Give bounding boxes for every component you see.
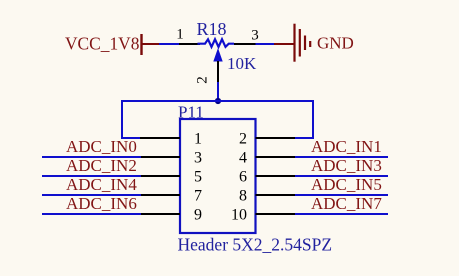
pin number 2 (P11) (239, 131, 247, 148)
wire ADC_IN6 (42, 213, 141, 215)
resistor R18 value 10K (227, 54, 257, 73)
svg-text:9: 9 (194, 207, 202, 224)
ground GND bar 3 (304, 36, 306, 51)
pin number 8 (P11) (239, 188, 247, 205)
svg-text:VCC_1V8: VCC_1V8 (65, 33, 140, 53)
ground GND lead (274, 43, 295, 45)
svg-text:ADC_IN0: ADC_IN0 (66, 137, 137, 156)
svg-text:ADC_IN1: ADC_IN1 (311, 137, 382, 156)
wire right to P11 pin 2 (294, 137, 314, 139)
pin 2 of P11 (256, 137, 296, 139)
potentiometer wiper arrow (213, 48, 222, 62)
pin 8 of P11 (256, 194, 296, 196)
net label ADC_IN6 (66, 194, 137, 213)
svg-text:8: 8 (239, 188, 247, 205)
net label ADC_IN2 (66, 156, 137, 175)
wire horizontal bus top (122, 100, 313, 102)
wire ADC_IN0 (42, 156, 141, 158)
net label ADC_IN4 (66, 175, 137, 194)
pin 5 of P11 (140, 175, 180, 177)
pin number 1 (R18) (176, 27, 184, 43)
pin number 7 (P11) (194, 188, 202, 205)
wire ADC_IN3 (295, 175, 388, 177)
svg-text:2: 2 (239, 131, 247, 148)
ground GND bar 4 (309, 41, 311, 47)
junction dot (215, 98, 221, 104)
net label ADC_IN3 (311, 156, 382, 175)
pin 3 of P11 (140, 156, 180, 158)
header P11 designator (178, 103, 204, 122)
header P11 comment (178, 235, 333, 255)
svg-text:ADC_IN4: ADC_IN4 (66, 175, 137, 194)
pin 3 of R18 (234, 43, 256, 45)
svg-text:3: 3 (251, 28, 259, 44)
wire R18 wiper down to junction (217, 82, 219, 101)
net label ADC_IN0 (66, 137, 137, 156)
svg-text:10K: 10K (227, 54, 257, 73)
pin number 3 (P11) (194, 150, 202, 167)
pin number 3 (R18) (251, 28, 259, 44)
wire R18 pin 3 to GND (256, 43, 276, 45)
power port VCC_1V8 lead (142, 43, 161, 45)
wire right vertical drop (312, 100, 314, 138)
resistor R18 designator (197, 19, 227, 39)
svg-text:4: 4 (239, 150, 247, 167)
power port VCC_1V8 bar (140, 34, 142, 55)
pin number 5 (P11) (194, 169, 202, 186)
pin number 10 (P11) (231, 207, 247, 224)
pin 1 of P11 (140, 137, 180, 139)
pin number 1 (P11) (194, 131, 202, 148)
svg-text:6: 6 (239, 169, 247, 186)
svg-text:2: 2 (195, 76, 211, 84)
wire ADC_IN1 (295, 156, 388, 158)
svg-text:ADC_IN2: ADC_IN2 (66, 156, 137, 175)
svg-text:ADC_IN5: ADC_IN5 (311, 175, 382, 194)
ground GND text (317, 34, 354, 53)
wire VCC to R18 pin 1 (159, 43, 180, 45)
ground GND bar 2 (299, 29, 301, 57)
pin 1 of R18 (179, 43, 200, 45)
resistor R18 body (potentiometer zigzag) (198, 39, 235, 47)
pin number 9 (P11) (194, 207, 202, 224)
wire ADC_IN7 (295, 213, 388, 215)
net label ADC_IN1 (311, 137, 382, 156)
pin 9 of P11 (140, 213, 180, 215)
wire left to P11 pin 1 (121, 137, 142, 139)
pin 4 of P11 (256, 156, 296, 158)
svg-text:GND: GND (317, 34, 354, 53)
pin number 2 (R18, rotated) (195, 76, 211, 84)
pin 6 of P11 (256, 175, 296, 177)
svg-text:ADC_IN7: ADC_IN7 (311, 194, 382, 213)
svg-text:7: 7 (194, 188, 202, 205)
pin 2 of R18 (wiper) (217, 61, 219, 83)
power port VCC_1V8 text (65, 33, 140, 53)
net label ADC_IN7 (311, 194, 382, 213)
pin number 4 (P11) (239, 150, 247, 167)
wire ADC_IN4 (42, 194, 141, 196)
svg-text:R18: R18 (197, 19, 227, 39)
pin 7 of P11 (140, 194, 180, 196)
svg-text:Header 5X2_2.54SPZ: Header 5X2_2.54SPZ (178, 235, 333, 255)
pin 10 of P11 (256, 213, 296, 215)
svg-text:ADC_IN6: ADC_IN6 (66, 194, 137, 213)
svg-text:1: 1 (194, 131, 202, 148)
svg-text:5: 5 (194, 169, 202, 186)
wire ADC_IN5 (295, 194, 388, 196)
ground GND bar 1 (293, 24, 295, 62)
net label ADC_IN5 (311, 175, 382, 194)
svg-text:1: 1 (176, 27, 184, 43)
pin number 6 (P11) (239, 169, 247, 186)
header P11 body rectangle (180, 119, 256, 233)
wire left vertical drop (121, 100, 123, 138)
wire ADC_IN2 (42, 175, 141, 177)
svg-text:10: 10 (231, 207, 247, 224)
svg-text:ADC_IN3: ADC_IN3 (311, 156, 382, 175)
svg-text:3: 3 (194, 150, 202, 167)
